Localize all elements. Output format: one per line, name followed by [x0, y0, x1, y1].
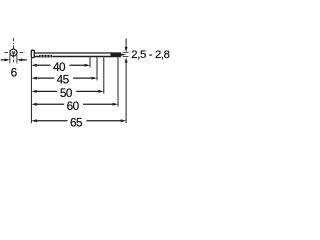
- svg-text:60: 60: [67, 99, 80, 113]
- svg-text:2,5 - 2,8: 2,5 - 2,8: [131, 49, 169, 61]
- svg-text:65: 65: [70, 115, 83, 129]
- svg-text:6: 6: [11, 65, 18, 79]
- svg-text:50: 50: [60, 86, 73, 100]
- svg-text:45: 45: [57, 73, 70, 87]
- svg-text:40: 40: [53, 60, 66, 74]
